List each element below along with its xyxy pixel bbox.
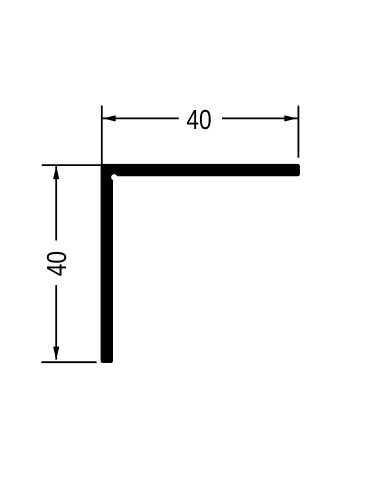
up arrowhead	[53, 166, 59, 179]
svg-text:40: 40	[42, 251, 73, 276]
left dimension line top segment	[55, 166, 57, 240]
top dimension line left segment	[103, 117, 179, 119]
left dimension line bottom segment	[55, 285, 57, 360]
top dimension: left extension line	[101, 106, 103, 165]
down arrowhead	[53, 347, 59, 360]
top dimension: right extension line	[297, 106, 299, 158]
left dimension: bottom extension line	[41, 361, 96, 363]
inner corner fillet	[111, 174, 117, 180]
top dimension line right segment	[222, 117, 297, 119]
svg-text:40: 40	[186, 105, 211, 136]
L-profile body	[101, 164, 300, 363]
left dimension: top extension line	[42, 164, 101, 166]
right arrowhead	[284, 115, 297, 121]
left arrowhead	[103, 115, 116, 121]
